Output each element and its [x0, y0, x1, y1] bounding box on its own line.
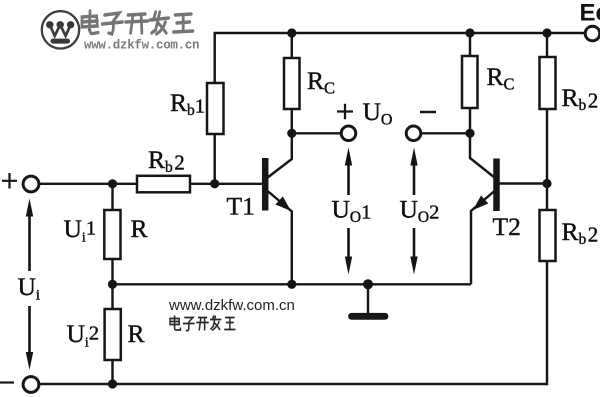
terminal input minus [23, 377, 39, 393]
node collector T2 [465, 129, 474, 138]
transistor T1 emitter arrowhead [276, 196, 292, 211]
transistor T2 emitter arrowhead [473, 196, 488, 211]
resistor Rb2 top-right [540, 57, 556, 109]
子 [102, 13, 122, 34]
wire to + output terminal [292, 132, 341, 134]
svg-text:Ui1: Ui1 [64, 214, 97, 246]
label plus Uo [337, 104, 353, 120]
resistor Rc2 [462, 56, 478, 108]
wire Rb2tr top [546, 33, 548, 57]
svg-text:UO: UO [363, 97, 393, 129]
开 [126, 14, 148, 33]
resistor Rb2 series [137, 176, 190, 193]
wire node to R lower [111, 284, 113, 309]
电 [82, 11, 98, 34]
wire Rc2 top [469, 33, 471, 56]
发 [210, 316, 221, 331]
svg-text:T2: T2 [493, 212, 521, 241]
resistor R upper (Ui1) [104, 210, 120, 259]
center watermark chinese 电子开发王 [170, 316, 235, 331]
node T1 emitter [287, 280, 296, 289]
svg-text:Rb2: Rb2 [562, 217, 599, 248]
svg-text:Ui2: Ui2 [67, 319, 100, 351]
terminal output plus [341, 126, 356, 141]
wire top rail [215, 33, 586, 83]
wire Rb2 to T1 base [190, 183, 262, 185]
wire Rc1 bottom to collector node [291, 109, 293, 133]
node bottom rail [108, 379, 117, 388]
svg-text:RC: RC [487, 62, 515, 94]
resistor R lower (Ui2) [105, 309, 121, 360]
node base T2 [542, 179, 551, 188]
子 [183, 318, 195, 331]
svg-text:RC: RC [307, 66, 335, 98]
svg-text:UO2: UO2 [400, 195, 440, 227]
wire between R upper and node [111, 259, 113, 284]
transistor T1 collector lead [267, 133, 292, 178]
label input minus [0, 381, 14, 383]
arrow Ui top [26, 199, 33, 272]
svg-text:Ui: Ui [18, 272, 41, 304]
arrow Ui bottom [26, 306, 33, 370]
arrow Uo1 top [345, 148, 352, 196]
logo watermark chinese 电子开发王 [82, 11, 193, 34]
arrow Uo1 bottom [345, 228, 352, 275]
resistor Rc1 [284, 58, 300, 109]
发 [150, 12, 169, 34]
node top-left of Rc1 [287, 28, 296, 37]
svg-text:UO1: UO1 [332, 195, 372, 227]
arrow Uo2 bottom [410, 228, 417, 275]
wire emitter coupling rail [113, 283, 472, 285]
arrow Uo2 top [410, 148, 417, 196]
node Rb1 bottom [210, 179, 219, 188]
terminal Ec [585, 26, 600, 41]
svg-text:www.dzkfw.com.cn: www.dzkfw.com.cn [84, 39, 199, 53]
svg-text:R: R [128, 319, 145, 348]
svg-text:Rb2: Rb2 [148, 145, 185, 176]
wire T2 base [500, 182, 548, 184]
logo watermark circle W [42, 11, 79, 48]
transistor T2 emitter lead [471, 191, 495, 284]
开 [196, 318, 209, 331]
svg-text:Ec: Ec [580, 0, 600, 27]
wire R lower to bottom rail [111, 360, 113, 384]
node top of Rc2 [465, 28, 474, 37]
resistor Rb2 bottom-right [540, 210, 556, 261]
ground [352, 284, 386, 316]
terminal output minus [406, 126, 421, 141]
wire input to Rb2 [39, 183, 137, 185]
wire Rb2tr bottom to base node [546, 109, 548, 184]
王 [224, 318, 235, 330]
wire node to Rb2br top [546, 184, 548, 211]
resistor Rb1 [207, 83, 224, 134]
svg-text:Rb1: Rb1 [170, 88, 205, 119]
svg-text:Rb2: Rb2 [562, 83, 599, 114]
label input plus [2, 173, 17, 189]
label minus [420, 111, 436, 114]
wire divider top segment [111, 184, 113, 210]
svg-text:www.dzkfw.com.cn: www.dzkfw.com.cn [168, 297, 295, 314]
node divider mid [108, 280, 117, 289]
transistor T1 emitter lead [267, 191, 292, 285]
terminal input plus [23, 176, 39, 192]
wire minus terminal to T2 collector node [421, 132, 470, 134]
svg-text:R: R [131, 214, 148, 243]
wire Rc1 top [291, 33, 293, 58]
transistor T2 base bar [493, 159, 500, 212]
电 [170, 316, 180, 331]
transistor T2 collector lead [470, 133, 495, 177]
wire Rc2 bottom [469, 108, 471, 133]
transistor T1 base bar [262, 158, 269, 211]
王 [174, 14, 193, 32]
node top of Rb2 right [542, 28, 551, 37]
svg-text:T1: T1 [227, 192, 255, 221]
node divider top [108, 179, 117, 188]
node collector T1 / output + [287, 129, 296, 138]
node ground [363, 279, 373, 289]
wire Rb2br bottom to bottom rail [39, 261, 548, 384]
wire Rb1 bottom to base line [213, 134, 215, 184]
